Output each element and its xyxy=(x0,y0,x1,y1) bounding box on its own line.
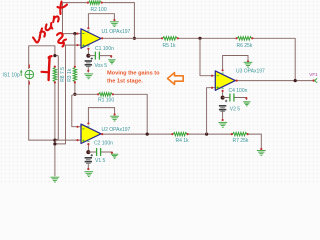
label U1 OPAx197 xyxy=(102,29,131,35)
wire C1 lead right xyxy=(100,56,112,58)
op-amp U2 xyxy=(81,124,101,143)
wire C2 lead right xyxy=(101,152,112,154)
label R1 100 xyxy=(98,98,114,104)
wire R3 column xyxy=(74,34,76,66)
label U3 OPAx197 xyxy=(236,69,265,75)
resistor R2 xyxy=(87,1,103,4)
wire U2 output bus xyxy=(101,133,172,135)
resistor R1 xyxy=(97,93,114,96)
ground V2 xyxy=(218,119,227,127)
node U1 inverting junction xyxy=(73,32,76,35)
wire R2 top loop left xyxy=(63,3,89,34)
wire link A xyxy=(55,56,58,141)
wire R1 right to bus xyxy=(113,94,148,134)
wire C2 lead left xyxy=(88,151,96,153)
wire U3 output xyxy=(235,80,313,82)
svg-text:R3 1k: R3 1k xyxy=(67,68,73,82)
wire Vos to ground xyxy=(87,67,89,72)
voltage pin VF1 xyxy=(312,78,317,82)
label IS1 10p xyxy=(3,73,20,79)
wire U1 output bus xyxy=(101,37,162,39)
svg-text:R8 7.5: R8 7.5 xyxy=(60,67,66,82)
node R5-R6 junction xyxy=(198,37,201,40)
capacitor C2 xyxy=(97,148,101,156)
node X shunt top xyxy=(53,54,56,57)
ground R7 xyxy=(257,148,266,155)
label R5 1k xyxy=(163,43,177,49)
svg-text:the 1st stage.: the 1st stage. xyxy=(107,78,143,84)
wire X jog xyxy=(55,55,58,57)
label Vos 5 xyxy=(95,63,108,69)
capacitor C4 xyxy=(230,94,234,102)
pin dots U3 xyxy=(211,69,238,92)
label V1 5 xyxy=(95,158,106,164)
svg-text:C2 100n: C2 100n xyxy=(94,141,113,147)
wire V1 to ground xyxy=(87,164,89,170)
svg-text:R5 1k: R5 1k xyxy=(163,43,177,49)
pin dots U2 xyxy=(76,122,103,145)
wire U3 Vminus stem xyxy=(222,90,224,97)
node P R1-R3 junction xyxy=(73,93,76,96)
node C2-V1 junction xyxy=(86,150,90,154)
pin dots U1 xyxy=(76,27,103,50)
svg-text:U2 OPAx197: U2 OPAx197 xyxy=(102,127,131,133)
battery V1 xyxy=(85,154,93,163)
wire U1 inverting input xyxy=(75,33,81,35)
svg-text:IS1 10p: IS1 10p xyxy=(3,73,20,79)
battery Vos xyxy=(85,57,93,66)
svg-text:R4 1k: R4 1k xyxy=(176,138,190,144)
svg-text:V1 5: V1 5 xyxy=(95,158,106,164)
wire C4 lead right xyxy=(234,98,246,101)
svg-text:C1 100n: C1 100n xyxy=(95,46,114,52)
svg-text:V2 5: V2 5 xyxy=(230,107,241,113)
label R2 100 xyxy=(91,7,107,13)
label R8 7.5 xyxy=(60,67,66,82)
ground U1 power xyxy=(110,19,119,27)
wire R1 lead left xyxy=(75,93,98,95)
ground U2 power xyxy=(110,113,119,121)
svg-text:R7 25k: R7 25k xyxy=(233,138,249,144)
resistor R3 xyxy=(73,66,76,84)
wire R6 to VF1 column xyxy=(252,38,295,80)
ground Vos xyxy=(84,70,93,79)
resistor R8 (shunt) xyxy=(53,66,56,84)
wire U3 plus riser xyxy=(207,88,216,134)
wire U2 bottom input xyxy=(55,139,81,141)
node R1 feedback junction xyxy=(146,133,149,136)
annotation red pointer mark xyxy=(42,56,52,80)
node C4-V2 junction xyxy=(221,96,225,100)
label C2 100n xyxy=(94,141,113,147)
wire U1 Vminus stem xyxy=(87,48,89,56)
resistor R4 xyxy=(171,132,188,135)
op-amp U1 xyxy=(81,29,101,48)
svg-text:R2 100: R2 100 xyxy=(91,7,107,13)
ground C4 xyxy=(243,97,250,106)
label C4 100n xyxy=(229,88,248,94)
node shunt bottom 1 xyxy=(53,139,56,142)
node shunt bottom 2 xyxy=(53,142,56,145)
node U1 output junction xyxy=(133,37,136,40)
annotation text moving gains xyxy=(107,71,160,85)
svg-text:VF1: VF1 xyxy=(309,72,318,77)
annotation orange arrow xyxy=(168,73,184,85)
current source IS1 xyxy=(20,65,34,85)
svg-text:U1 OPAx197: U1 OPAx197 xyxy=(102,29,131,35)
wire V2 to ground xyxy=(222,109,224,120)
node C1-Vos junction xyxy=(86,54,90,58)
resistor R5 xyxy=(161,37,179,40)
wire U1 power loop xyxy=(88,14,114,29)
svg-text:Vos 5: Vos 5 xyxy=(95,63,108,69)
svg-text:U3 OPAx197: U3 OPAx197 xyxy=(236,69,265,75)
wire IS1 bottom xyxy=(29,80,55,140)
wire U3 power loop xyxy=(223,56,248,71)
annotation handwritten 2s xyxy=(57,33,66,46)
label R6 25k xyxy=(237,43,253,49)
wire R7 to ground corner xyxy=(248,134,261,149)
capacitor C1 xyxy=(95,52,99,60)
svg-text:R6 25k: R6 25k xyxy=(237,43,253,49)
svg-text:Moving the gains to: Moving the gains to xyxy=(107,71,160,77)
resistor R6 xyxy=(235,37,253,40)
label R3 1k xyxy=(67,68,73,82)
wire U3 inverting feed xyxy=(200,38,215,75)
wire R4-R7 segment xyxy=(188,133,231,135)
label VF1 xyxy=(309,72,318,77)
wire C1 lead left xyxy=(88,55,95,57)
wire U1 plus input riser xyxy=(55,45,81,144)
ground C2 xyxy=(111,152,119,159)
svg-text:R1 100: R1 100 xyxy=(98,98,114,104)
node VF1 junction xyxy=(294,79,297,82)
op-amp U3 xyxy=(215,71,235,90)
ground V1 xyxy=(84,168,93,177)
label U2 OPAx197 xyxy=(102,127,131,133)
battery V2 xyxy=(219,100,227,112)
resistor R7 xyxy=(231,132,249,135)
ground C1 xyxy=(108,55,115,64)
wire U2 inverting riser xyxy=(72,94,81,126)
label R7 25k xyxy=(233,138,249,144)
wire R3 to node P xyxy=(74,83,76,94)
label R4 1k xyxy=(176,138,190,144)
wire shunt ground stem xyxy=(54,83,56,176)
ground input reference xyxy=(51,177,60,182)
wire R2 top loop right xyxy=(102,3,135,39)
label C1 100n xyxy=(95,46,114,52)
wire IS1 top loop xyxy=(29,46,55,69)
annotation handwritten shunt xyxy=(33,2,67,43)
svg-text:C4 100n: C4 100n xyxy=(229,88,248,94)
wire U2 Vminus stem xyxy=(87,144,89,153)
node R4-R7 junction xyxy=(205,133,208,136)
ground U3 power xyxy=(244,60,253,67)
wire C4 lead left xyxy=(223,97,230,99)
label V2 5 xyxy=(230,107,241,113)
wire U2 power loop xyxy=(88,108,114,125)
wire R5-R6 segment xyxy=(178,37,236,39)
